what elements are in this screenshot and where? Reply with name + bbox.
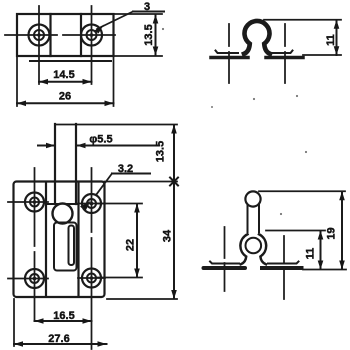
dim 27.6 right arrowhead [98,341,107,347]
profile latch dim 19 dimension line [341,192,343,269]
label 3 leader line [97,12,133,30]
front view channel left line [45,182,47,296]
top view hole 2 horizontal centerline [63,34,115,36]
front view hole TL outer circle [25,193,44,212]
dim 14.5 left arrowhead [39,79,48,85]
top view hole 2 vertical centerline / 14.5 extension [91,6,93,84]
dim 13.5 dimension line [155,15,157,55]
front view plate top extension line [105,181,178,183]
dim 22 top extension line [97,203,142,205]
dim 16.5 dimension line [35,320,92,322]
front view 13.5 dimension line [173,125,175,182]
profile view latch right foot top [268,262,299,264]
profile latch dim 19 bottom arrowhead [339,261,345,270]
svg-text:14.5: 14.5 [53,69,74,81]
profile view catch right foot top [269,51,293,54]
dim 22 dimension line [136,204,138,277]
dim 22 bottom extension line [97,277,142,279]
profile view latch left foot top [210,262,239,264]
profile latch dim 19 top extension line [259,190,345,192]
dim 26 right arrowhead [105,101,114,107]
front view slider body [54,223,77,271]
top view loop section left line [49,14,51,56]
label 3.2 leader arrowhead [80,201,91,211]
front view knob circle [53,204,73,224]
dim 26 left extension line [16,56,18,106]
top view hole 2 center dot [90,33,94,37]
profile view latch bolt rod circle [246,238,262,254]
profile view latch stem right line [258,205,260,232]
top view hole 1 inner circle [34,30,44,40]
front view right vertical centerline [91,168,93,349]
dim 26 right extension line [113,56,115,106]
label 3.2 leader line [96,174,112,196]
front view hole BR inner circle [87,274,96,283]
profile view latch right foot bottom [262,266,302,270]
profile view latch loop outer [240,234,266,264]
svg-text:19: 19 [326,227,338,239]
front view hole BR center dot [90,276,94,280]
svg-text:27.6: 27.6 [48,333,69,345]
profile catch dim 11 top arrowhead [334,20,340,29]
front view hole TR horizontal centerline [78,203,105,205]
top view hole 1 vertical centerline / 14.5 extension [38,6,40,84]
front view hole BL outer circle [25,269,44,288]
profile view latch left centerline [224,227,226,291]
top view bottom lip line [30,60,111,62]
dim phi5.5 left arrow line [38,145,54,147]
svg-text:13.5: 13.5 [143,24,155,45]
profile view catch left foot bottom [211,56,248,60]
svg-text:16.5: 16.5 [53,310,74,322]
profile catch dim 11 bottom arrowhead [334,46,340,55]
dim 34 dimension line [173,182,175,299]
svg-text:34: 34 [162,229,174,242]
front view hole BR horizontal centerline [78,277,105,279]
svg-text:26: 26 [59,91,71,103]
profile view catch right foot bottom [266,56,303,60]
svg-text:11: 11 [325,34,337,46]
dim 13.5 top arrowhead [153,15,159,24]
front view hole BL horizontal centerline [8,278,48,280]
dim phi5.5 right arrowhead [77,143,86,149]
front view bolt stem right line [75,124,77,204]
front view hole BL center dot [33,277,37,281]
profile view catch left centerline [228,24,230,83]
dim 34 bottom arrowhead [171,290,177,299]
profile latch dim 11 top arrowhead [318,231,324,240]
front view slot [69,226,75,266]
scan noise dots [162,28,307,215]
profile latch dim 11 top extension line [266,230,325,232]
dim 22 bottom arrowhead [134,269,140,278]
profile view latch knob circle [245,191,260,206]
dim phi5.5 left arrowhead [46,143,55,149]
front view hole TL center dot [33,200,37,204]
dim 14.5 dimension line [39,81,92,83]
dim 27.6 left arrowhead [14,341,23,347]
profile view latch left foot bottom [204,266,246,270]
front view hole TR outer circle [82,194,101,213]
profile catch dim 11 dimension line [336,20,338,55]
dim 16.5 left arrowhead [35,318,44,324]
profile latch dim 19 top arrowhead [339,191,345,200]
svg-text:22: 22 [125,239,137,251]
profile latch dim 11 dimension line [320,231,322,269]
profile latch dim 11 bottom arrowhead [318,261,324,270]
dim 13.5 top extension line [114,13,162,15]
front view hole TR inner circle [87,199,96,208]
svg-text:13.5: 13.5 [155,141,167,162]
svg-text:11: 11 [305,248,317,260]
dim 14.5 right arrowhead [83,79,92,85]
front view hole BR outer circle [82,269,101,288]
top view hole 2 outer circle [81,25,102,46]
front view channel right line [77,182,79,296]
profile view catch left foot top [216,51,239,54]
front view bolt stem left line [54,124,56,204]
dim 26 left arrowhead [17,101,26,107]
top view hole 1 horizontal centerline [5,34,57,36]
top view loop section right line [80,14,82,56]
front view hole TL horizontal centerline [8,201,48,203]
dim 26 dimension line [17,102,114,104]
profile latch bottom extension line [303,269,346,271]
top view hole 2 inner circle [87,30,97,40]
profile view latch stem left line [247,205,249,232]
front view 13.5/34 cross mark [170,178,178,186]
profile catch dim 11 top extension line [264,19,341,21]
front view left vertical centerline [34,168,36,321]
profile view catch omega loop [244,21,270,54]
profile catch dim 11 bottom extension line [303,54,341,56]
dim 27.6 dimension line [14,343,107,345]
dim 13.5 bottom arrowhead [153,47,159,56]
dim 22 top arrowhead [134,204,140,213]
label 3.2 underline [112,173,150,175]
top view hole 1 center dot [37,33,41,37]
front view stem top edge / 13.5 extension [55,124,177,126]
front view 13.5 top arrowhead [171,125,177,134]
top view hole 1 outer circle [29,25,50,46]
profile view latch right centerline [283,236,285,299]
dim 16.5 right arrowhead [83,318,92,324]
label 3 underline [133,11,164,13]
top view plate outline [17,14,114,56]
profile view catch right centerline [284,24,286,83]
dim 13.5 bottom extension line [114,55,162,57]
dim 34 bottom extension line [107,298,177,300]
dim phi5.5 line under text [77,145,159,147]
front view cross line behind knob [46,203,79,205]
front view hole TR center dot [90,202,94,206]
dim 27.6 left extension line [13,299,15,346]
front view plate outline [14,182,105,298]
front view hole BL inner circle [30,274,39,283]
front view hole TL inner circle [30,198,39,207]
svg-text:φ5.5: φ5.5 [89,134,112,146]
label 3 leader arrowhead [95,25,105,34]
